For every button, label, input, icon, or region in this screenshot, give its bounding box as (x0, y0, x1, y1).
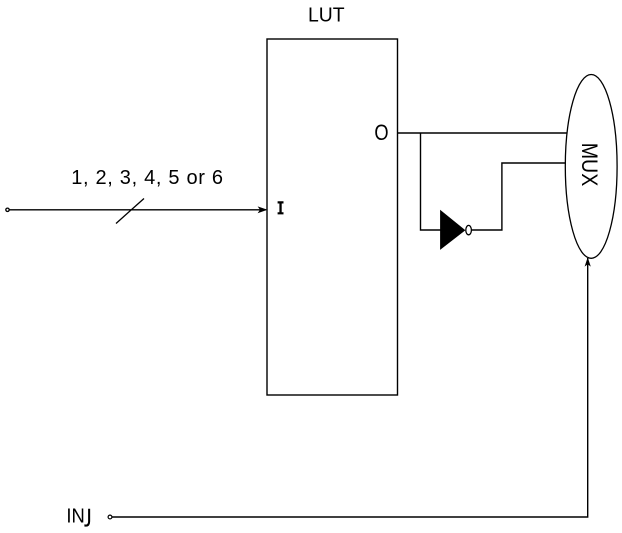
svg-text:MUX: MUX (577, 143, 602, 187)
svg-text:LUT: LUT (308, 3, 345, 26)
svg-text:O: O (374, 120, 388, 145)
svg-text:1, 2, 3, 4, 5 or 6: 1, 2, 3, 4, 5 or 6 (71, 167, 223, 189)
svg-text:IN: IN (66, 506, 84, 528)
